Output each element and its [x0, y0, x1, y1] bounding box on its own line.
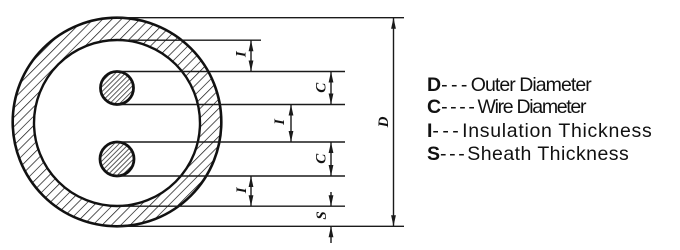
svg-text:I: I: [272, 118, 288, 126]
extension line wire2-top: [117, 141, 345, 143]
extension line inner-top: [117, 39, 261, 41]
dimension S sheath thickness (outside arrows): [329, 192, 334, 243]
dimension C2 wire diameter bottom: [329, 142, 334, 176]
insulation inner circle: [34, 40, 200, 206]
wire conductor top: [101, 72, 134, 105]
svg-text:D---Outer Diameter: D---Outer Diameter: [427, 74, 592, 96]
dimension I2 insulation middle: [289, 105, 294, 143]
svg-text:S: S: [314, 211, 330, 219]
svg-text:C: C: [314, 82, 330, 93]
extension line wire2-bottom: [117, 175, 345, 177]
svg-text:I: I: [234, 186, 250, 194]
svg-text:C: C: [314, 153, 330, 164]
dimension I3 insulation bottom: [249, 176, 254, 206]
sheath outer circle (hatched ring): [13, 18, 222, 227]
dimension C1 wire diameter top: [329, 72, 334, 105]
svg-text:I: I: [233, 50, 249, 58]
extension line outer-bottom: [117, 225, 404, 227]
wire conductor bottom: [100, 142, 134, 176]
extension line outer-top: [117, 17, 404, 19]
svg-text:D: D: [376, 116, 392, 128]
extension line inner-bottom: [117, 205, 345, 207]
extension line wire1-bottom: [117, 104, 345, 106]
svg-text:I---Insulation Thickness: I---Insulation Thickness: [427, 120, 652, 142]
dimension I1 insulation top: [249, 40, 254, 71]
svg-text:S---Sheath Thickness: S---Sheath Thickness: [427, 143, 629, 165]
svg-text:C----Wire Diameter: C----Wire Diameter: [427, 96, 587, 118]
extension line wire1-top: [117, 71, 345, 73]
dimension D outer diameter: [391, 18, 396, 227]
